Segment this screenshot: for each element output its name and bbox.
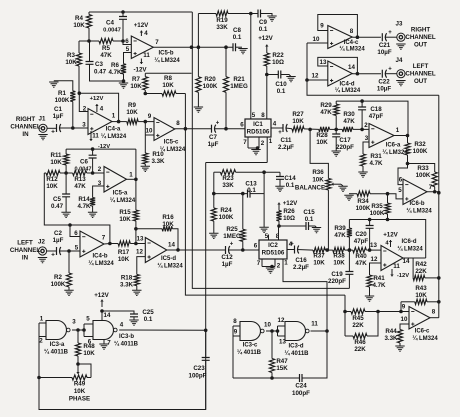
- svg-text:12: 12: [278, 317, 285, 324]
- svg-text:C17: C17: [339, 137, 351, 144]
- svg-text:47K: 47K: [355, 260, 367, 267]
- svg-text:100K: 100K: [203, 83, 218, 90]
- svg-text:LEFT: LEFT: [413, 63, 429, 70]
- svg-text:IC4-b: IC4-b: [93, 254, 108, 260]
- svg-text:¼ LM324: ¼ LM324: [382, 149, 408, 156]
- svg-text:33K: 33K: [222, 182, 234, 189]
- svg-text:C23: C23: [193, 365, 205, 372]
- svg-text:+: +: [388, 67, 392, 73]
- svg-text:10K: 10K: [126, 109, 138, 116]
- svg-text:R33: R33: [417, 165, 429, 172]
- svg-text:8: 8: [261, 112, 265, 119]
- svg-text:RD5106: RD5106: [262, 250, 285, 257]
- svg-text:10K: 10K: [118, 256, 130, 263]
- svg-text:15K: 15K: [276, 365, 288, 372]
- svg-text:+12V: +12V: [258, 35, 273, 42]
- svg-text:¼ LM324: ¼ LM324: [412, 335, 438, 342]
- svg-text:¼ LM324: ¼ LM324: [101, 133, 127, 140]
- svg-text:RD5106: RD5106: [247, 129, 270, 136]
- svg-text:7: 7: [155, 39, 159, 46]
- svg-text:7: 7: [257, 260, 261, 267]
- svg-text:C6: C6: [80, 159, 88, 166]
- svg-text:R45: R45: [352, 315, 364, 322]
- svg-text:R29: R29: [320, 102, 332, 109]
- svg-text:R2: R2: [54, 274, 62, 281]
- svg-text:10K: 10K: [162, 82, 174, 89]
- svg-text:1: 1: [129, 172, 133, 179]
- svg-text:10K: 10K: [65, 59, 77, 66]
- svg-text:10K: 10K: [415, 292, 427, 299]
- svg-text:10K: 10K: [292, 118, 304, 125]
- svg-text:47K: 47K: [343, 118, 355, 125]
- svg-text:¼ LM324: ¼ LM324: [335, 87, 361, 94]
- svg-text:IC3-b: IC3-b: [119, 334, 134, 340]
- svg-text:3.3K: 3.3K: [384, 335, 398, 342]
- svg-text:1: 1: [269, 138, 273, 145]
- svg-text:10K: 10K: [73, 22, 85, 29]
- svg-text:R28: R28: [316, 132, 328, 139]
- svg-text:10: 10: [146, 128, 153, 135]
- svg-text:7: 7: [107, 340, 111, 347]
- svg-text:C22: C22: [378, 79, 390, 86]
- svg-text:R4: R4: [75, 15, 83, 22]
- svg-text:IC4-d: IC4-d: [340, 82, 355, 88]
- svg-text:R35: R35: [371, 203, 383, 210]
- svg-text:10: 10: [264, 322, 271, 329]
- svg-text:9: 9: [320, 23, 324, 30]
- svg-text:1: 1: [40, 316, 44, 323]
- svg-text:J1: J1: [39, 116, 46, 123]
- svg-text:IC3-c: IC3-c: [243, 343, 258, 349]
- svg-text:R22: R22: [272, 52, 284, 59]
- svg-text:10K: 10K: [162, 221, 174, 228]
- svg-text:3: 3: [98, 180, 102, 187]
- svg-text:10K: 10K: [119, 216, 131, 223]
- svg-text:IC5-b: IC5-b: [159, 51, 174, 57]
- svg-text:11: 11: [311, 321, 318, 328]
- svg-text:220pF: 220pF: [336, 144, 354, 151]
- svg-text:OUT: OUT: [414, 42, 427, 49]
- svg-text:C1: C1: [54, 106, 62, 113]
- svg-text:IC5-d: IC5-d: [161, 256, 176, 262]
- svg-text:+: +: [290, 242, 294, 248]
- svg-text:5: 5: [126, 46, 130, 53]
- svg-text:R21: R21: [233, 76, 245, 83]
- svg-text:R9: R9: [128, 102, 136, 109]
- svg-text:CHANNEL: CHANNEL: [405, 34, 435, 41]
- svg-text:8: 8: [350, 28, 354, 35]
- svg-text:LEFT: LEFT: [17, 240, 33, 247]
- svg-text:10: 10: [401, 316, 408, 323]
- svg-text:R46: R46: [354, 339, 366, 346]
- svg-text:14: 14: [403, 258, 410, 265]
- svg-text:0.1: 0.1: [233, 34, 242, 41]
- svg-text:3.3K: 3.3K: [120, 282, 134, 289]
- svg-text:33K: 33K: [216, 24, 228, 31]
- svg-text:R40: R40: [355, 253, 367, 260]
- svg-text:3: 3: [365, 135, 369, 142]
- svg-text:RIGHT: RIGHT: [16, 116, 35, 123]
- svg-text:¼ 4011B: ¼ 4011B: [44, 349, 69, 356]
- svg-text:47K: 47K: [334, 232, 346, 239]
- svg-text:1µF: 1µF: [53, 237, 64, 244]
- svg-text:C19: C19: [331, 271, 343, 278]
- svg-text:12: 12: [136, 249, 143, 256]
- svg-text:5: 5: [398, 187, 402, 194]
- svg-text:IN: IN: [22, 131, 29, 138]
- svg-text:IC6-a: IC6-a: [386, 143, 401, 149]
- svg-text:C20: C20: [355, 231, 367, 238]
- svg-text:C21: C21: [379, 42, 391, 49]
- svg-text:0.1: 0.1: [277, 88, 286, 95]
- svg-text:11: 11: [143, 52, 150, 59]
- svg-text:R42: R42: [415, 261, 427, 268]
- svg-text:14: 14: [104, 312, 111, 319]
- svg-text:R43: R43: [415, 285, 427, 292]
- svg-text:¼ LM324: ¼ LM324: [157, 263, 183, 270]
- svg-text:100K: 100K: [416, 172, 431, 179]
- svg-text:10: 10: [313, 36, 320, 43]
- svg-text:0.1: 0.1: [247, 187, 256, 194]
- svg-text:C12: C12: [221, 254, 233, 261]
- svg-text:4: 4: [100, 106, 104, 113]
- svg-text:4: 4: [144, 30, 148, 37]
- svg-text:R13: R13: [74, 176, 86, 183]
- svg-text:7: 7: [243, 139, 247, 146]
- svg-text:+: +: [230, 242, 234, 248]
- svg-text:1µF: 1µF: [222, 261, 233, 268]
- svg-text:-12V: -12V: [133, 67, 147, 74]
- svg-text:1: 1: [396, 127, 400, 134]
- svg-text:+12V: +12V: [94, 292, 109, 299]
- svg-text:+12V: +12V: [283, 200, 298, 207]
- svg-text:12: 12: [371, 256, 378, 263]
- svg-text:10Ω: 10Ω: [272, 59, 284, 66]
- svg-text:2: 2: [277, 263, 281, 270]
- svg-text:4.7K: 4.7K: [77, 203, 91, 210]
- svg-text:C2: C2: [54, 230, 62, 237]
- svg-text:-12V: -12V: [397, 273, 409, 279]
- svg-text:R32: R32: [414, 141, 426, 148]
- svg-text:47K: 47K: [100, 52, 112, 59]
- svg-text:2: 2: [98, 166, 102, 173]
- svg-text:R23: R23: [222, 175, 234, 182]
- svg-text:R26: R26: [283, 208, 295, 215]
- svg-text:8: 8: [233, 318, 237, 325]
- svg-text:R37: R37: [313, 253, 325, 260]
- svg-text:3: 3: [72, 319, 76, 326]
- svg-text:IC2: IC2: [268, 242, 278, 249]
- svg-text:14: 14: [348, 64, 355, 71]
- svg-text:13: 13: [320, 59, 327, 66]
- svg-text:IC4-a: IC4-a: [106, 127, 121, 133]
- svg-text:100K: 100K: [51, 281, 66, 288]
- svg-text:100pF: 100pF: [189, 373, 207, 380]
- svg-text:13: 13: [370, 242, 377, 249]
- svg-text:IC6-c: IC6-c: [415, 329, 430, 335]
- svg-text:C7: C7: [209, 134, 217, 141]
- svg-text:47K: 47K: [320, 109, 332, 116]
- svg-text:22K: 22K: [354, 346, 366, 353]
- svg-text:J2: J2: [38, 239, 45, 246]
- svg-text:10K: 10K: [50, 159, 62, 166]
- svg-text:R6: R6: [111, 62, 119, 69]
- svg-text:¼ LM324: ¼ LM324: [160, 146, 186, 153]
- svg-text:+: +: [278, 130, 282, 136]
- svg-text:R17: R17: [118, 249, 130, 256]
- svg-text:R44: R44: [385, 328, 397, 335]
- svg-text:R34: R34: [357, 198, 369, 205]
- svg-text:0.1: 0.1: [305, 216, 314, 223]
- svg-text:2: 2: [39, 338, 43, 345]
- svg-text:10Ω: 10Ω: [283, 215, 295, 222]
- svg-text:100K: 100K: [55, 97, 70, 104]
- svg-text:5: 5: [75, 245, 79, 252]
- svg-text:12: 12: [312, 73, 319, 80]
- svg-text:1µF: 1µF: [53, 113, 64, 120]
- svg-text:R8: R8: [164, 75, 172, 82]
- svg-text:2: 2: [83, 106, 87, 113]
- svg-text:OUT: OUT: [414, 78, 427, 85]
- svg-text:R25: R25: [226, 226, 238, 233]
- svg-text:10K: 10K: [316, 139, 328, 146]
- svg-text:R47: R47: [276, 358, 288, 365]
- svg-text:R30: R30: [343, 111, 355, 118]
- svg-text:¼ 4011B: ¼ 4011B: [114, 341, 139, 348]
- svg-text:R36: R36: [312, 169, 324, 176]
- svg-text:22K: 22K: [415, 268, 427, 275]
- svg-text:0.1: 0.1: [286, 182, 295, 189]
- svg-text:5: 5: [86, 316, 90, 323]
- svg-text:100K: 100K: [370, 210, 385, 217]
- svg-text:C25: C25: [142, 309, 154, 316]
- svg-text:8: 8: [176, 120, 180, 127]
- svg-text:10µF: 10µF: [377, 86, 391, 93]
- svg-text:R5: R5: [102, 45, 110, 52]
- svg-text:R38: R38: [333, 253, 345, 260]
- svg-text:R20: R20: [204, 76, 216, 83]
- svg-text:10K: 10K: [312, 177, 324, 184]
- svg-text:+12V: +12V: [383, 232, 398, 239]
- svg-text:¼ LM324: ¼ LM324: [88, 260, 114, 267]
- svg-text:10K: 10K: [74, 388, 86, 395]
- svg-text:C11: C11: [280, 137, 292, 144]
- svg-text:R18: R18: [121, 275, 133, 282]
- svg-text:IC3-a: IC3-a: [50, 342, 65, 348]
- svg-text:13: 13: [137, 236, 144, 243]
- svg-text:C9: C9: [259, 19, 267, 26]
- svg-text:J3: J3: [396, 21, 403, 28]
- svg-text:R15: R15: [119, 209, 131, 216]
- svg-text:C24: C24: [295, 383, 307, 390]
- svg-text:+12V: +12V: [90, 96, 104, 102]
- svg-text:14: 14: [168, 242, 175, 249]
- svg-text:220pF: 220pF: [328, 278, 346, 285]
- svg-text:R31: R31: [370, 153, 382, 160]
- svg-text:R3: R3: [67, 52, 75, 59]
- svg-text:R16: R16: [162, 214, 174, 221]
- svg-text:R11: R11: [50, 152, 62, 159]
- svg-text:2.2µF: 2.2µF: [278, 144, 294, 151]
- svg-text:CHANNEL: CHANNEL: [10, 124, 40, 131]
- svg-text:47pF: 47pF: [354, 238, 369, 245]
- svg-text:C8: C8: [233, 27, 241, 34]
- svg-text:2.2µF: 2.2µF: [293, 264, 309, 271]
- svg-text:R14: R14: [78, 196, 90, 203]
- svg-text:3.3K: 3.3K: [151, 158, 165, 165]
- svg-text:C4: C4: [106, 20, 114, 27]
- svg-text:R41: R41: [373, 275, 385, 282]
- svg-text:R39: R39: [334, 225, 346, 232]
- svg-text:4.7K: 4.7K: [372, 282, 386, 289]
- svg-text:R27: R27: [292, 111, 304, 118]
- svg-text:IC3-d: IC3-d: [289, 344, 304, 350]
- svg-text:+: +: [388, 30, 392, 36]
- svg-text:7: 7: [102, 235, 106, 242]
- svg-text:IC6-b: IC6-b: [410, 201, 425, 207]
- svg-text:+: +: [51, 129, 55, 136]
- svg-text:R7: R7: [132, 76, 140, 83]
- svg-text:C15: C15: [303, 209, 315, 216]
- svg-text:+: +: [51, 252, 55, 259]
- svg-text:J4: J4: [396, 57, 403, 64]
- svg-text:R12: R12: [46, 176, 58, 183]
- svg-text:4.7K: 4.7K: [108, 69, 122, 76]
- svg-text:PHASE: PHASE: [69, 396, 90, 403]
- svg-text:1: 1: [284, 260, 288, 267]
- svg-text:C10: C10: [275, 81, 287, 88]
- svg-text:22K: 22K: [352, 322, 364, 329]
- svg-text:47K: 47K: [74, 183, 86, 190]
- svg-text:4: 4: [120, 322, 124, 329]
- svg-text:R24: R24: [220, 207, 232, 214]
- svg-text:IC5-c: IC5-c: [164, 140, 179, 146]
- svg-text:11: 11: [92, 133, 99, 140]
- svg-text:0.47: 0.47: [51, 203, 64, 210]
- svg-text:¼ LM324: ¼ LM324: [397, 246, 423, 253]
- svg-text:R1: R1: [58, 90, 66, 97]
- svg-text:CHANNEL: CHANNEL: [10, 247, 40, 254]
- svg-text:IC4-c: IC4-c: [344, 40, 359, 46]
- svg-text:+12V: +12V: [134, 22, 149, 29]
- svg-text:IN: IN: [22, 255, 29, 262]
- svg-text:8: 8: [432, 309, 436, 316]
- svg-text:47pF: 47pF: [369, 113, 384, 120]
- svg-text:8: 8: [276, 233, 280, 240]
- svg-text:¼ LM324: ¼ LM324: [110, 197, 136, 204]
- svg-text:100K: 100K: [413, 148, 428, 155]
- svg-text:C3: C3: [95, 61, 103, 68]
- svg-text:10K: 10K: [46, 183, 58, 190]
- svg-text:3: 3: [82, 122, 86, 129]
- svg-text:5: 5: [252, 112, 256, 119]
- svg-text:10µF: 10µF: [377, 49, 391, 56]
- svg-text:IC1: IC1: [253, 121, 263, 128]
- svg-text:9: 9: [234, 329, 238, 336]
- svg-text:0.1: 0.1: [259, 26, 268, 33]
- svg-text:2: 2: [364, 122, 368, 129]
- svg-text:100K: 100K: [219, 214, 234, 221]
- svg-text:¼ LM324: ¼ LM324: [339, 46, 365, 53]
- svg-text:1: 1: [112, 113, 116, 120]
- svg-text:¼ 4011B: ¼ 4011B: [237, 349, 262, 356]
- svg-text:10K: 10K: [83, 350, 95, 357]
- svg-text:6: 6: [74, 230, 78, 237]
- svg-text:1µF: 1µF: [208, 141, 219, 148]
- svg-text:R49: R49: [74, 381, 86, 388]
- svg-text:10K: 10K: [333, 260, 345, 267]
- svg-text:4.7K: 4.7K: [369, 160, 383, 167]
- svg-text:CHANNEL: CHANNEL: [405, 71, 435, 78]
- svg-text:C16: C16: [295, 257, 307, 264]
- svg-text:100pF: 100pF: [292, 390, 310, 397]
- svg-text:C5: C5: [53, 196, 61, 203]
- svg-text:11: 11: [393, 263, 400, 270]
- svg-text:R48: R48: [83, 343, 95, 350]
- svg-text:¼ 4011B: ¼ 4011B: [284, 350, 309, 357]
- svg-text:IC5-a: IC5-a: [113, 191, 128, 197]
- svg-text:6: 6: [399, 177, 403, 184]
- svg-text:0.47: 0.47: [94, 69, 107, 76]
- svg-text:+: +: [216, 121, 220, 127]
- svg-text:0.0047: 0.0047: [103, 28, 121, 34]
- svg-text:C18: C18: [370, 106, 382, 113]
- svg-text:1MEG: 1MEG: [223, 233, 241, 240]
- svg-text:9: 9: [148, 113, 152, 120]
- svg-text:6: 6: [125, 38, 129, 45]
- svg-text:1MEG: 1MEG: [230, 83, 248, 90]
- svg-text:RIGHT: RIGHT: [411, 27, 430, 34]
- svg-text:6: 6: [240, 122, 244, 129]
- svg-text:C14: C14: [284, 175, 296, 182]
- svg-text:IC6-d: IC6-d: [402, 239, 417, 245]
- svg-text:10K: 10K: [130, 83, 142, 90]
- svg-text:0.1: 0.1: [144, 316, 153, 323]
- svg-text:10K: 10K: [313, 260, 325, 267]
- svg-text:6: 6: [254, 243, 258, 250]
- svg-text:9: 9: [402, 304, 406, 311]
- svg-text:¼ LM324: ¼ LM324: [154, 57, 180, 64]
- svg-text:4: 4: [273, 121, 277, 128]
- svg-text:7: 7: [429, 184, 433, 191]
- svg-text:¼ LM324: ¼ LM324: [406, 208, 432, 215]
- svg-text:BALANCE: BALANCE: [295, 185, 325, 192]
- svg-text:R19: R19: [216, 17, 228, 24]
- svg-text:2: 2: [261, 140, 265, 147]
